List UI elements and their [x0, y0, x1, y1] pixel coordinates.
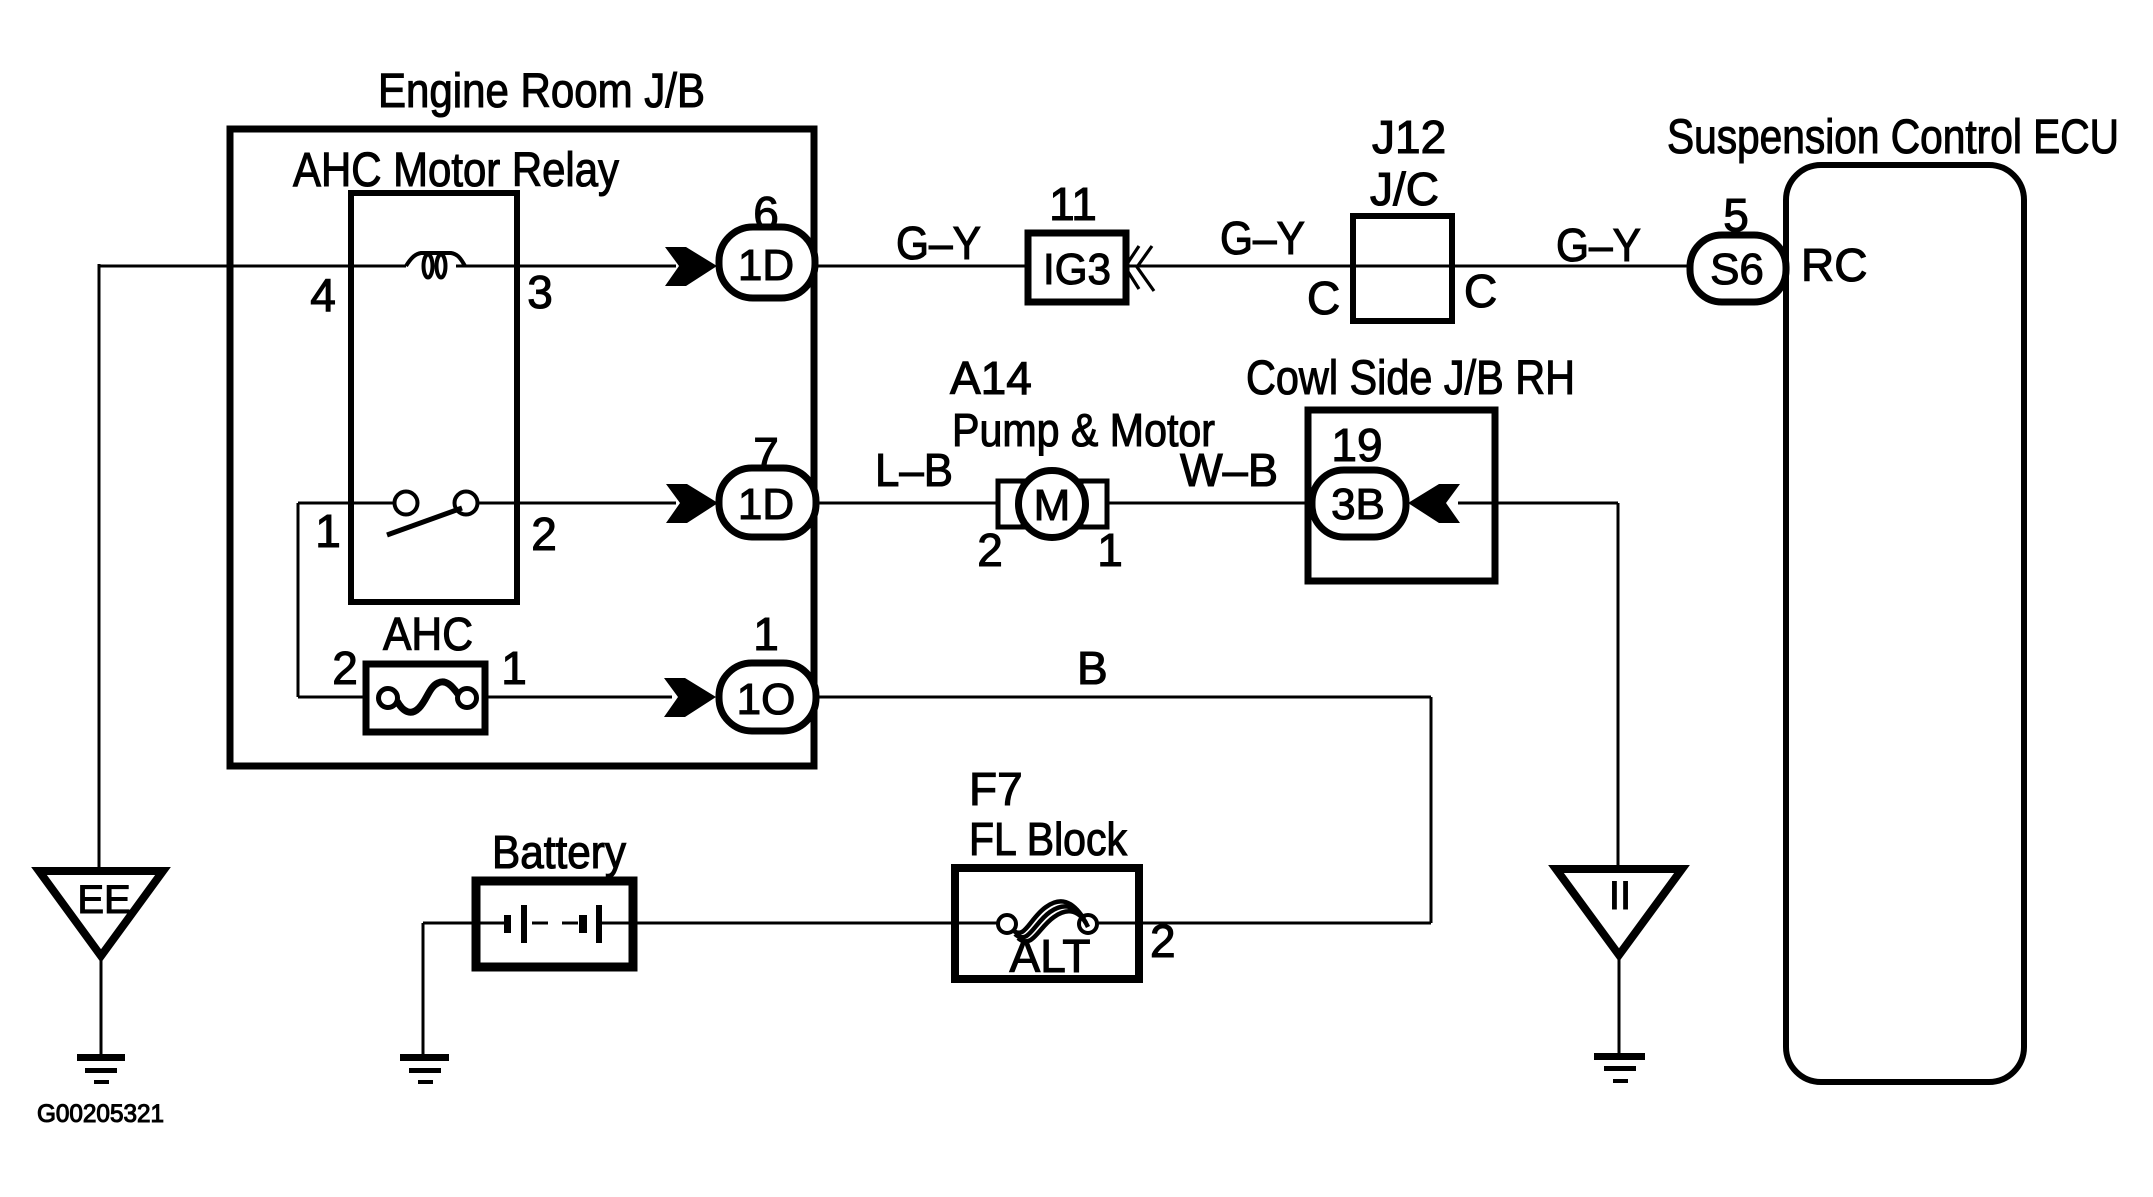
svg-text:Engine Room J/B: Engine Room J/B — [378, 65, 705, 118]
svg-text:J12: J12 — [1372, 111, 1446, 163]
fuse AHC box — [366, 664, 485, 732]
svg-text:6: 6 — [753, 187, 779, 239]
wire: switch pin1 horizontal into relay — [298, 502, 394, 505]
svg-text:1: 1 — [501, 642, 527, 694]
svg-text:Pump & Motor: Pump & Motor — [952, 404, 1215, 456]
wire: battery positive lead — [423, 922, 505, 925]
svg-text:S6: S6 — [1710, 245, 1764, 294]
motor brush terminal left — [998, 481, 1023, 527]
wire: EE triangle point to ground symbol — [100, 957, 103, 1056]
svg-text:7: 7 — [753, 428, 779, 480]
battery plate tall left — [521, 905, 527, 943]
svg-text:1: 1 — [753, 608, 779, 660]
svg-text:W–B: W–B — [1180, 444, 1278, 496]
svg-text:G00205321: G00205321 — [37, 1100, 164, 1128]
relay switch blade — [387, 508, 462, 535]
wire: G-Y from 1D pin6 to IG3 — [814, 265, 1028, 268]
svg-text:L–B: L–B — [875, 444, 953, 496]
battery plate short right — [579, 915, 587, 933]
svg-text:G–Y: G–Y — [896, 217, 981, 269]
wire: from 3B arrow through cowl box to corner — [1458, 502, 1618, 505]
wire: relay switch pin1 feed vertical — [297, 503, 300, 697]
svg-text:M: M — [1034, 481, 1071, 530]
svg-text:G–Y: G–Y — [1556, 219, 1641, 271]
fuse AHC element — [397, 682, 458, 712]
ground symbol below II — [1594, 1053, 1645, 1060]
svg-text:1O: 1O — [737, 675, 796, 724]
connector arrow into 1D pin6 — [665, 247, 717, 286]
wire: W-B from motor pin1 to cowl side J/B 3B — [1106, 502, 1312, 505]
connector oval 1D pin7 — [719, 468, 816, 537]
svg-text:IG3: IG3 — [1043, 245, 1111, 294]
connector oval 1O pin1 — [719, 663, 816, 731]
svg-text:AHC: AHC — [383, 608, 473, 660]
svg-text:FL Block: FL Block — [969, 813, 1128, 865]
wire: switch pin2 to 1D pin7 arrow — [478, 502, 676, 505]
svg-text:5: 5 — [1723, 189, 1749, 241]
svg-text:A14: A14 — [950, 352, 1032, 404]
battery plate short left — [504, 915, 511, 933]
fuse AHC right terminal — [458, 689, 477, 708]
ground triangle EE — [39, 871, 163, 956]
junction block box: Engine Room J/B — [230, 129, 814, 766]
fusible link ALT element — [1013, 901, 1084, 933]
svg-text:EE: EE — [77, 878, 130, 922]
wire: ALT fuse pin2 to junction with B wire — [1096, 922, 1431, 925]
wire: B vertical down to ALT row junction — [1430, 697, 1433, 923]
wire: battery to FL block ALT fuse — [601, 922, 999, 925]
battery box — [476, 881, 633, 967]
wire: II triangle point to ground symbol — [1618, 955, 1621, 1056]
junction block box: Cowl Side J/B RH — [1308, 410, 1495, 581]
svg-text:2: 2 — [1150, 915, 1176, 967]
wire: AHC fuse row from vertical to fuse pin2 — [298, 696, 382, 699]
wire: EE ground feed, row1 horizontal from node to relay coil — [99, 265, 406, 268]
svg-text:19: 19 — [1331, 419, 1382, 471]
fusible link ALT left terminal — [998, 915, 1016, 933]
svg-text:3: 3 — [527, 266, 553, 318]
fusible link ALT right terminal — [1079, 915, 1097, 933]
wire: G-Y from IG3 to S6 through J12 J/C — [1126, 265, 1690, 268]
relay switch contact left — [395, 492, 418, 515]
connector arrow into 1D pin7 — [666, 484, 718, 523]
wire: L-B from 1D pin7 to pump motor pin2 — [814, 502, 1000, 505]
ground triangle II — [1556, 869, 1682, 955]
svg-text:1: 1 — [315, 505, 341, 557]
svg-text:RC: RC — [1801, 239, 1867, 291]
wire: battery internal dashed link — [532, 922, 578, 925]
connector oval S6 pin5 — [1690, 235, 1786, 302]
svg-text:11: 11 — [1049, 178, 1097, 230]
connector arrow into 3B pin19 — [1408, 484, 1460, 523]
svg-text:AHC Motor Relay: AHC Motor Relay — [293, 144, 619, 197]
svg-text:Suspension Control ECU: Suspension Control ECU — [1667, 111, 2119, 164]
svg-text:3B: 3B — [1331, 480, 1385, 529]
svg-text:2: 2 — [531, 508, 557, 560]
wire: battery negative vertical to ground — [422, 923, 425, 1056]
svg-text:1: 1 — [1097, 524, 1123, 576]
svg-text:C: C — [1464, 265, 1497, 317]
relay coil — [406, 253, 465, 266]
svg-text:B: B — [1077, 642, 1108, 694]
svg-text:II: II — [1609, 874, 1631, 918]
ECU box: Suspension Control ECU — [1786, 165, 2024, 1082]
relay switch contact right — [455, 492, 478, 515]
svg-text:Cowl Side J/B RH: Cowl Side J/B RH — [1246, 352, 1575, 405]
connector oval 1D pin6 — [719, 227, 815, 298]
svg-text:G–Y: G–Y — [1220, 212, 1305, 264]
wire: vertical drop to EE ground triangle — [98, 264, 101, 871]
battery plate tall right — [596, 905, 602, 943]
wire: vertical drop to II ground triangle — [1617, 503, 1620, 869]
svg-text:C: C — [1307, 272, 1340, 324]
connector oval 3B pin19 — [1312, 470, 1406, 537]
wire: AHC fuse pin1 to 1O arrow — [475, 696, 672, 699]
svg-text:Battery: Battery — [492, 826, 626, 878]
wire: B from 1O pin1 rightward — [814, 696, 1431, 699]
ground symbol below EE — [77, 1054, 125, 1061]
svg-text:ALT: ALT — [1010, 930, 1091, 982]
motor brush terminal right — [1081, 481, 1107, 527]
connector IG3 female chevrons — [1125, 246, 1139, 289]
junction connector J12 box — [1353, 216, 1452, 321]
svg-text:F7: F7 — [969, 763, 1023, 815]
wire: row1 coil to connector 1D arrow — [456, 265, 676, 268]
ground symbol below battery — [400, 1054, 449, 1061]
svg-text:4: 4 — [310, 269, 336, 321]
fusible link block box — [955, 868, 1139, 979]
svg-text:1D: 1D — [738, 480, 794, 529]
relay U: AHC Motor Relay outline — [351, 193, 517, 602]
fuse AHC left terminal — [379, 689, 398, 708]
connector arrow into 1O pin1 — [664, 678, 716, 717]
connector IG3 box — [1028, 233, 1126, 302]
motor M1 body — [1019, 471, 1086, 538]
svg-text:1D: 1D — [738, 241, 794, 290]
svg-text:J/C: J/C — [1370, 163, 1439, 215]
svg-text:2: 2 — [977, 524, 1003, 576]
svg-text:2: 2 — [332, 642, 358, 694]
